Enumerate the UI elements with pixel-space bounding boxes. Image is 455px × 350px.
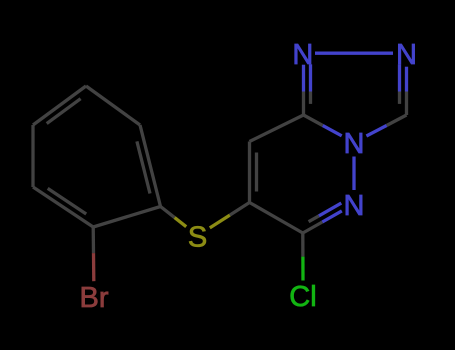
bond N5-C8a (ring fusion) (C half) — [304, 115, 323, 126]
double bond N2=C3 (C half) — [405, 92, 408, 116]
double bond N4=C6 (N half) — [322, 211, 342, 222]
bond C2'-Br (bromo substituent) (C half) — [92, 227, 96, 253]
bond C5'-C6' (benzene) — [86, 86, 140, 125]
bond C3-N5 (C half) — [387, 115, 407, 126]
bond N1-N2 (triazole N-N) — [315, 52, 393, 55]
bond C8-C8a — [250, 115, 304, 142]
double bond C6'=C1' (benzene) inner line — [137, 141, 150, 193]
bond C3-N5 (N half) — [366, 126, 386, 137]
double bond C8a=N1 (C half) — [302, 92, 305, 116]
double bond C4'=C5' (benzene) inner line — [47, 99, 81, 124]
double bond C8a=N1 (N half) — [302, 65, 305, 92]
bond C2'-Br (bromo substituent) (Br half) — [92, 253, 96, 281]
double bond C4'=C5' (benzene) — [33, 86, 86, 125]
svg-text:N: N — [344, 190, 365, 222]
svg-text:N: N — [344, 128, 365, 160]
double bond C2'=C3' (benzene) — [33, 187, 93, 227]
svg-text:N: N — [396, 39, 417, 71]
bond C1'-C2' (benzene) — [93, 207, 160, 228]
bond C7-S (thioether) (S half) — [210, 215, 230, 228]
bond N5-C8a (ring fusion) (N half) — [323, 126, 342, 136]
bond C1'-S (thioether) (S half) — [175, 218, 187, 227]
svg-text:Cl: Cl — [289, 281, 316, 313]
bond C6-Cl (chloro substituent) (Cl half) — [301, 257, 304, 281]
double bond N2=C3 inner (N half) — [398, 64, 401, 91]
double bond N4=C6 inner (C half) — [309, 216, 319, 222]
double bond C7=C8 — [248, 142, 251, 203]
double bond C6'=C1' (benzene) — [140, 125, 161, 207]
double bond N4=C6 (C half) — [303, 222, 323, 233]
double bond N2=C3 inner (C half) — [398, 92, 401, 104]
svg-text:N: N — [292, 39, 313, 71]
double bond C8a=N1 inner (C half) — [309, 92, 312, 104]
bond C6-C7 — [250, 203, 303, 234]
bond C6-Cl (chloro substituent) (C half) — [301, 233, 304, 257]
svg-text:S: S — [188, 222, 207, 254]
bond C7-S (thioether) (C half) — [230, 203, 250, 216]
double bond C2'=C3' (benzene) inner line — [48, 188, 86, 214]
bond C1'-S (thioether) (C half) — [161, 207, 175, 218]
bond C3'-C4' (benzene) — [31, 125, 34, 187]
double bond C7=C8 inner line — [255, 153, 258, 192]
double bond C8a=N1 inner (N half) — [309, 64, 312, 91]
double bond N2=C3 (N half) — [405, 67, 408, 92]
svg-text:Br: Br — [80, 282, 109, 314]
double bond N4=C6 inner (N half) — [319, 203, 342, 216]
bond N5-N4 (pyridazine N-N) — [352, 157, 355, 191]
